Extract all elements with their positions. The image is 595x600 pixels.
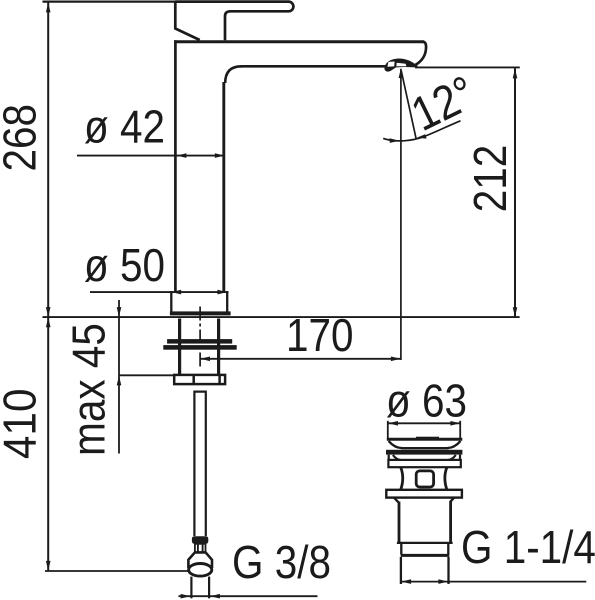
faucet body top / spout top edge — [174, 40, 424, 43]
svg-text:ø 42: ø 42 — [84, 102, 165, 153]
spout underside — [241, 65, 391, 68]
extension line spout outlet right — [415, 66, 520, 68]
svg-text:ø 63: ø 63 — [386, 376, 467, 427]
arrow 268 bottom — [46, 307, 51, 317]
drain threaded tail — [400, 557, 402, 584]
dimension 212 vertical — [514, 68, 516, 317]
svg-text:ø 50: ø 50 — [84, 240, 165, 291]
dimension G 3/8 line — [179, 595, 318, 597]
extension line max45 lower — [119, 374, 174, 376]
dimension max45 vertical — [118, 300, 120, 454]
dimension ø63 line — [388, 422, 460, 424]
svg-text:170: 170 — [286, 310, 354, 361]
svg-text:G 3/8: G 3/8 — [232, 537, 331, 588]
dimension G 1-1/4 line — [401, 581, 586, 583]
shank end block — [174, 375, 225, 384]
drain lower flange — [386, 490, 462, 498]
dimension ø50 line — [90, 291, 229, 293]
arrow 410 bottom — [46, 561, 51, 571]
drain cap lower rim band — [386, 450, 462, 455]
flexible hose tails — [193, 392, 207, 536]
dimension line 268/410 vertical — [47, 2, 49, 571]
aerator beak at spout tip — [384, 59, 417, 72]
svg-text:410: 410 — [0, 389, 46, 460]
base flange bottom band — [170, 311, 231, 315]
extension line top (lever top level) — [43, 1, 181, 3]
dimension 170 line — [200, 358, 401, 360]
faucet centerline — [199, 307, 201, 368]
hose ferrule — [192, 536, 208, 544]
hose end nut — [188, 552, 212, 568]
svg-text:G 1-1/4: G 1-1/4 — [461, 522, 595, 573]
svg-text:max 45: max 45 — [64, 323, 115, 456]
washer band — [167, 339, 232, 344]
locknut band — [163, 345, 236, 350]
hose thread stub — [190, 577, 192, 599]
drain washer rectangle — [388, 460, 460, 467]
spout tip outer curve — [415, 42, 427, 66]
arrow 410 top — [46, 317, 51, 327]
drain cap top — [387, 438, 463, 441]
drain pipe section A — [398, 502, 401, 543]
body left edge — [174, 40, 177, 291]
deck line — [43, 316, 520, 318]
angle arc — [383, 121, 460, 141]
ø63 extension lines — [387, 421, 389, 438]
extension line bottom left — [45, 570, 188, 572]
hose neck — [195, 544, 206, 553]
angle reference vertical line — [400, 69, 402, 360]
drain shoulder taper — [394, 498, 454, 502]
body right edge — [222, 82, 225, 292]
dimension ø42 line — [77, 155, 225, 157]
drain pipe section B — [400, 544, 402, 555]
base flange sides — [170, 291, 172, 312]
drain cap flare curves — [389, 441, 461, 448]
body inner corner under spout — [225, 66, 241, 83]
drain square hole — [416, 471, 433, 487]
faucet lever handle — [175, 2, 293, 41]
angle tilted line 12deg — [401, 71, 416, 139]
drain rim tabs and curves — [389, 455, 460, 460]
arrow 268 top — [46, 3, 51, 13]
shank below deck — [178, 319, 181, 375]
drain body concave sides — [401, 467, 447, 489]
svg-text:268: 268 — [0, 104, 46, 172]
svg-text:212: 212 — [465, 145, 516, 213]
